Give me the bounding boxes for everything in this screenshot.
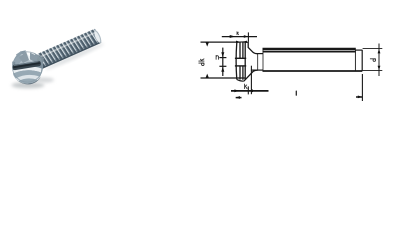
slot wall line 2 upper [242,42,244,58]
top dim left arrow [230,35,236,38]
slot depth rectangle bottom line [235,65,246,67]
dimension n upper extension tick [219,57,226,59]
shadow under head [12,82,45,88]
head top silhouette edge [237,41,248,43]
neck top line [257,53,264,55]
thread root top [263,51,356,53]
slot wall line 1 upper [239,42,241,58]
head max-diameter junction [247,42,249,48]
dimension n line (vertical) [222,48,224,76]
dimension d top extension line [363,48,383,50]
dk top arrow (down) [206,43,209,47]
n top arrow (down) [221,52,224,57]
labels (drawn as paths to avoid subpixel colour AA) [199,32,376,96]
neck bottom line [251,69,263,71]
label n (slot width) [216,55,218,59]
dimension l right extension line [361,74,363,101]
head dome face [235,43,238,80]
thread crest bottom [263,70,363,72]
dimension l right stub line [356,96,362,98]
label l (length) [295,91,297,95]
label k (bottom) [245,84,247,89]
l right arrow [358,96,362,99]
label dk (rotated) [199,59,204,66]
thread end vertical [354,49,356,71]
head bottom silhouette edge [237,80,244,82]
dimension k (bottom) line [231,90,269,92]
upper facets [15,51,41,67]
d top arrow (up) [378,49,381,54]
slot-width dimension approach line [243,41,247,43]
extra facet shading [19,52,29,64]
dimension dk bottom extension line [201,77,246,79]
neck start vertical [257,54,259,71]
thread crest top line (thick) [263,48,356,50]
label d (rotated, right) [370,59,375,62]
below slot: bright cone band [13,66,42,73]
cone top edge [248,48,257,54]
thread start vertical [262,49,264,71]
label k (top, tiny) [237,32,239,35]
dimension n lower extension tick [219,65,226,67]
top dim right arrow [244,35,248,38]
screw head (photo) [12,50,44,84]
slot wall line 1 lower [239,66,241,80]
screw shank (threaded), rotated [33,28,103,70]
bottom rim [14,77,41,85]
dimension l left stub line [236,97,242,99]
dimension dk top extension line [201,41,237,43]
dimension d bottom extension line [363,70,383,72]
length datum extension line [250,66,252,95]
slot wall line 2 lower [242,66,244,80]
junction shadow to shank [35,54,44,68]
dk bottom arrow (up) [206,74,209,78]
d bottom arrow (down) [378,66,381,71]
arrowheads (filled) [206,35,381,99]
n bottom arrow (up) [221,67,224,72]
bottom k arrows [234,89,238,92]
slot width arrows (y41.8) [236,41,240,43]
shadow under shank [45,42,105,72]
dimension k (bottom) extension tick [247,86,249,94]
tip chamfer top line [356,49,363,51]
slot back wall line [244,42,246,79]
slot depth rectangle top line [235,57,246,59]
dimension k (top) extension line [247,32,249,41]
screw end face [361,50,363,71]
tip chamfer + end face [93,29,103,44]
dimension d line (vertical) [378,44,380,77]
dimension k (top) line [222,36,257,38]
lower body [13,70,42,83]
cone bottom edge [244,70,258,81]
l left arrow [236,96,241,99]
slot (drawn on top) [12,61,41,71]
